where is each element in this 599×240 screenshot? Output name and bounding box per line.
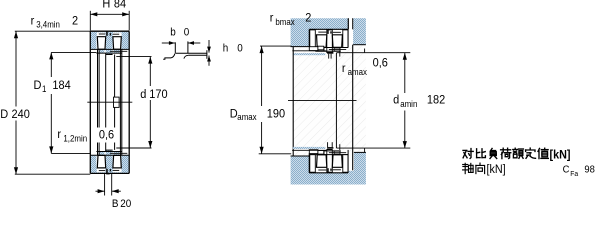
upper half-section rings and rollers (left view): [91, 31, 129, 54]
shaft shoulder top right (right view): [353, 18, 366, 45]
svg-text:d: d: [140, 87, 146, 101]
svg-text:b: b: [170, 27, 176, 39]
svg-text:184: 184: [52, 78, 71, 92]
spacer sleeve strip bottom (right view): [293, 147, 325, 149]
dimension Damax 190: [230, 46, 291, 154]
bearing outer boundary (left view): [90, 31, 129, 173]
svg-text:r: r: [31, 14, 35, 28]
gap lines top right: [348, 18, 352, 29]
dimension D 240: [0, 31, 90, 174]
shaft shoulder top edge bottom: [354, 151, 366, 153]
svg-text:182: 182: [427, 93, 445, 107]
dimension r3,4min 2: [15, 14, 91, 31]
svg-text:D: D: [34, 78, 42, 92]
svg-text:r: r: [270, 11, 274, 25]
title text: comparative load rating (CJK, bold): [463, 148, 571, 161]
svg-text:D: D: [0, 107, 8, 121]
svg-text:C: C: [563, 164, 570, 176]
svg-text:H: H: [102, 0, 110, 11]
housing bore wall (right view): [292, 47, 294, 156]
cage marks bottom edge: [106, 173, 110, 174]
bearing outline bottom (right view): [309, 150, 348, 173]
svg-text:170: 170: [149, 87, 167, 101]
locating pin top (right view): [327, 52, 333, 59]
housing top block (right view): [291, 18, 349, 46]
svg-text:d: d: [393, 93, 399, 107]
label r1,2min with value 0,6: [57, 128, 116, 144]
shaft shoulder bottom edge top: [353, 44, 366, 46]
svg-text:2: 2: [72, 14, 78, 28]
svg-text:3,4min: 3,4min: [36, 19, 60, 30]
bearing lower section (right view): [310, 150, 348, 173]
housing top block bottom edge: [291, 46, 310, 48]
svg-text:B: B: [112, 199, 119, 208]
svg-text:98: 98: [584, 164, 595, 176]
bore silhouette line c: [105, 53, 107, 151]
label ramax with value 0,6: [342, 56, 388, 77]
svg-text:190: 190: [267, 107, 285, 121]
washer lip boxes top (right view): [309, 46, 324, 50]
value CFa 98: [563, 164, 596, 178]
svg-text:1,2min: 1,2min: [63, 133, 87, 144]
svg-text:0,6: 0,6: [373, 56, 388, 70]
groove detail profile: [163, 41, 207, 59]
dimension damin 182: [365, 49, 446, 153]
spacer sleeve strip top (right view): [293, 53, 325, 55]
svg-text:[kN]: [kN]: [487, 164, 506, 177]
bore silhouette line e: [119, 49, 121, 155]
dimension D1 184: [34, 52, 97, 153]
svg-text:amax: amax: [237, 112, 257, 123]
bearing outline top (right view): [309, 29, 348, 47]
lower half-section rings and rollers (left view): [91, 150, 129, 173]
dimension B 20: [96, 173, 132, 210]
svg-text:amax: amax: [348, 66, 368, 77]
svg-text:240: 240: [12, 107, 30, 121]
axis centerline (right view): [288, 100, 357, 102]
svg-text:[kN]: [kN]: [550, 149, 571, 162]
housing bottom block (right view): [291, 152, 366, 184]
shaft diameter line (right view): [335, 53, 337, 148]
svg-text:r: r: [342, 61, 346, 75]
shaft section hatch (right view): [293, 45, 366, 156]
bore silhouette line f: [121, 49, 123, 155]
dimension d 170: [116, 57, 167, 148]
svg-text:0: 0: [184, 27, 190, 39]
axis centerline (left view): [87, 101, 132, 103]
svg-text:20: 20: [120, 199, 131, 208]
bearing upper section (right view): [310, 30, 348, 53]
bearing seat cutout bottom (right view): [309, 150, 348, 173]
row text: axial [kN] (CJK): [463, 163, 506, 176]
svg-text:0,6: 0,6: [99, 128, 114, 142]
abutment line top (right view): [292, 50, 326, 52]
svg-text:amin: amin: [400, 99, 417, 110]
groove detail dimension h 0: [207, 40, 243, 66]
washer lip boxes bottom (right view): [309, 150, 324, 154]
svg-text:0: 0: [237, 43, 243, 55]
locating pin bottom (right view): [327, 142, 333, 149]
svg-text:84: 84: [114, 0, 127, 11]
bore silhouette line b: [98, 49, 100, 155]
svg-text:bmax: bmax: [275, 16, 295, 27]
shoulder step lines bottom (right view): [336, 144, 364, 150]
housing bottom block top edge: [291, 155, 310, 157]
dimension H 84: [90, 0, 129, 31]
bore silhouette line d (with center groove): [114, 55, 120, 150]
svg-text:r: r: [57, 128, 61, 142]
abutment line bottom (right view): [292, 149, 326, 151]
svg-text:Fa: Fa: [570, 170, 578, 178]
label rbmax with value 2: [270, 11, 312, 27]
svg-text:h: h: [223, 43, 229, 55]
shaft surface line (right view): [352, 45, 354, 171]
shoulder step lines top (right view): [336, 51, 364, 57]
bore silhouette line a: [97, 49, 99, 155]
groove detail dimension b 0: [162, 27, 201, 45]
bearing seat cutout top (right view): [309, 29, 348, 50]
svg-text:2: 2: [305, 11, 311, 25]
svg-text:1: 1: [42, 84, 47, 95]
